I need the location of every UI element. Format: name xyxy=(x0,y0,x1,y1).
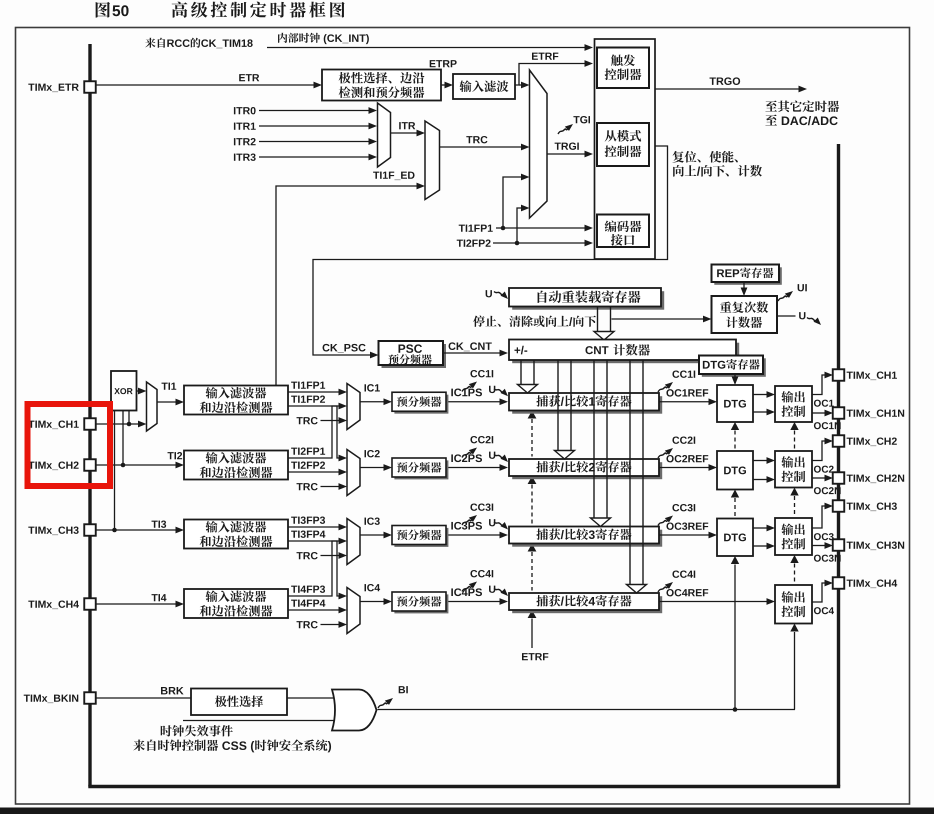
mux IC2 select xyxy=(347,450,360,496)
wire TI3 xyxy=(152,520,167,527)
pin TIMx_CH2N right xyxy=(833,472,845,484)
figure title text xyxy=(172,2,345,18)
box capture/compare register 2 xyxy=(512,462,662,479)
label clock failure event xyxy=(161,725,233,736)
wire TIMx_CH1 to mux xyxy=(96,423,139,425)
event CC2I left xyxy=(470,436,493,443)
wire ITR xyxy=(399,122,415,129)
mux ITR select xyxy=(378,103,391,167)
box channel prescaler 4 xyxy=(394,594,448,613)
pin TIMx_CH1N right xyxy=(833,407,845,419)
wire IC2 xyxy=(360,467,384,469)
wire update to repetition counter xyxy=(612,318,704,320)
wire OC2N to pin xyxy=(812,477,825,479)
wire CH1 to XOR xyxy=(128,411,130,425)
wire clock failure input xyxy=(183,720,336,722)
label CSS source xyxy=(133,739,331,752)
wire TI3FP4 xyxy=(291,530,325,537)
pin TIMx_CH3 right xyxy=(833,500,845,512)
pin TIMx_CH1 xyxy=(84,418,96,430)
box capture/compare register 4 xyxy=(512,596,662,613)
left pin rail xyxy=(88,44,91,787)
wire DTG2 to output control xyxy=(753,460,767,462)
box output control 4 xyxy=(775,585,812,624)
label TRGO destination xyxy=(765,100,839,112)
event U repetition out xyxy=(777,315,796,317)
box encoder interface xyxy=(597,215,649,248)
wire TRGO xyxy=(655,88,799,90)
wire TI2 xyxy=(168,452,183,459)
wire dashed DTG1 update xyxy=(731,422,739,430)
pin TIMx_BKIN xyxy=(84,692,96,704)
event TGI xyxy=(558,124,573,134)
event U CC2 xyxy=(489,452,495,459)
wire compare event dashed CC1 xyxy=(528,411,537,419)
label CK_TIM18 source xyxy=(145,38,252,48)
box channel prescaler 3 xyxy=(394,528,448,547)
wire OC4 to pin xyxy=(812,583,825,602)
wire TRC channel 2 xyxy=(297,483,318,490)
box output control 3 xyxy=(775,518,812,555)
wire TRC channel 4 xyxy=(297,621,318,628)
mux IC1 select xyxy=(347,384,360,430)
wire dashed OC1 update xyxy=(790,422,798,430)
gate OR break xyxy=(332,690,377,731)
pin TIMx_CH3N right xyxy=(833,539,845,551)
box DTG register xyxy=(702,358,766,377)
wire TRC channel 3 xyxy=(297,552,318,559)
box input filter edge detector TI4 xyxy=(184,589,288,618)
wire ETRP xyxy=(441,84,445,86)
event U auto-reload xyxy=(486,290,492,297)
event UI xyxy=(778,291,793,301)
pin TIMx_CH1 right xyxy=(833,369,845,381)
wire dashed DTG2 update xyxy=(731,490,739,498)
event CC4I right xyxy=(672,570,695,577)
pin TIMx_CH4 right xyxy=(833,577,845,589)
wire IC1 xyxy=(360,401,384,403)
box PSC prescaler xyxy=(382,344,447,368)
box REP register xyxy=(714,267,782,285)
wire TI3FP3 xyxy=(291,516,325,523)
wire TI4FP3 xyxy=(291,585,325,592)
wire OC4 enable from break line xyxy=(790,624,798,632)
wire IC2PS xyxy=(446,467,500,469)
wire OC4REF xyxy=(659,601,767,603)
wire CNT to CC3 double arrow xyxy=(593,360,595,518)
wire CNT to CC1 double arrow xyxy=(520,360,522,385)
box input filter edge detector TI2 xyxy=(184,451,288,480)
wire TI1FP1 xyxy=(291,382,325,389)
mux IC4 select xyxy=(347,588,360,634)
wire TI1F_ED xyxy=(373,172,414,181)
wire OC1REF xyxy=(659,401,709,403)
wire REP to repetition counter xyxy=(743,282,745,288)
box ETR polarity/edge/prescaler xyxy=(322,70,441,101)
wire IC4PS xyxy=(446,601,500,603)
box input filter edge detector TI1 xyxy=(184,386,288,415)
box capture/compare register 1 xyxy=(512,396,662,414)
box XOR xyxy=(111,371,137,411)
wire IC4 xyxy=(360,601,384,603)
wire break line xyxy=(378,709,796,711)
wire TI1FP1 top xyxy=(459,225,493,232)
mux TRGI select xyxy=(530,70,548,218)
mux IC3 select xyxy=(347,519,360,565)
event CC3I left xyxy=(470,503,493,510)
wire OC1 to pin xyxy=(812,375,825,395)
wire IC3PS xyxy=(446,534,500,536)
wire OC2REF xyxy=(659,467,709,469)
pin TIMx_CH2 right xyxy=(833,435,845,447)
event BI xyxy=(378,698,393,708)
wire TI2FP2 xyxy=(291,461,325,468)
pin TIMx_CH4 xyxy=(84,598,96,610)
event CC4I left xyxy=(470,570,493,577)
wire ETRF xyxy=(515,64,585,86)
wire TI2FP1 xyxy=(291,447,325,454)
wire OC3REF xyxy=(659,534,709,536)
box output control 1 xyxy=(775,386,812,422)
box channel prescaler 2 xyxy=(394,460,448,479)
wire TRGI xyxy=(555,142,579,149)
wire CH2 to XOR xyxy=(122,411,124,466)
wire TI1FP2 xyxy=(291,395,325,402)
wire ITR2 xyxy=(234,138,256,145)
wire TI4 xyxy=(152,594,167,601)
page bottom bar xyxy=(0,808,934,814)
pin TIMx_ETR xyxy=(84,81,96,93)
wire DTG3 to output control xyxy=(753,527,767,529)
box DTG 2 xyxy=(717,451,753,490)
label stop clear updown xyxy=(473,316,596,327)
wire DTG3 from break line xyxy=(731,556,739,564)
wire DTG register to DTG xyxy=(734,374,736,377)
annotation highlight TIMx_CH1 TIMx_CH2 xyxy=(28,404,111,486)
wire TI1 xyxy=(162,383,177,390)
wire ARR to CNT double arrow xyxy=(597,307,599,332)
event CC1I left xyxy=(470,370,493,377)
box ETR input filter xyxy=(453,74,515,99)
wire TRC to TRGI mux xyxy=(466,136,487,143)
wire BRK xyxy=(161,687,184,694)
wire OC3N to pin xyxy=(812,545,825,547)
event U CC3 xyxy=(489,519,495,526)
event U CC4 xyxy=(489,586,495,593)
box controller container xyxy=(595,39,656,259)
wire TI2FP2 top xyxy=(457,239,491,246)
mux TRC select xyxy=(425,121,440,200)
wire TRC channel 1 xyxy=(297,417,318,424)
event U CC1 xyxy=(489,386,495,393)
wire compare event dashed CC2 xyxy=(528,476,537,484)
box input filter edge detector TI3 xyxy=(184,520,288,549)
event CC2I right xyxy=(672,436,695,443)
bottom rail wire xyxy=(88,785,840,788)
figure title 图50 xyxy=(96,2,110,18)
wire CNT to CC4 double arrow xyxy=(629,360,631,585)
wire IC1PS xyxy=(446,401,500,403)
wire ETR xyxy=(96,84,314,86)
box CNT counter xyxy=(512,343,739,364)
event CC1I right xyxy=(672,370,695,377)
wire OC2 to pin xyxy=(812,441,825,461)
box DTG 1 xyxy=(717,385,753,422)
box output control 2 xyxy=(775,451,812,488)
box BRK polarity select xyxy=(191,689,287,716)
pin TIMx_CH3 xyxy=(84,524,96,536)
mux TI1 select xyxy=(147,382,158,431)
box trigger controller xyxy=(597,48,649,89)
wire CNT to CC2 double arrow xyxy=(557,360,559,451)
wire ITR0 xyxy=(234,107,256,114)
box channel prescaler 1 xyxy=(394,395,448,414)
box auto-reload register xyxy=(512,291,664,310)
event CC3I right xyxy=(672,504,695,511)
wire polarity to OR gate xyxy=(287,697,336,699)
wire IC3 xyxy=(360,534,384,536)
wire dashed OC3 update xyxy=(790,555,798,563)
box repetition counter xyxy=(712,296,778,333)
pin TIMx_CH2 xyxy=(84,459,96,471)
wire OC3 to pin xyxy=(812,506,825,528)
wire clock control path CK_PSC xyxy=(313,146,668,355)
box capture/compare register 3 xyxy=(512,530,662,547)
wire OC1N to pin xyxy=(812,412,825,414)
wire TI4FP4 xyxy=(291,600,325,607)
label ETRP xyxy=(430,60,457,67)
wire DTG1 to output control xyxy=(753,394,767,396)
right pin rail xyxy=(837,144,840,787)
wire compare event dashed CC3 xyxy=(528,544,537,552)
wire ITR1 xyxy=(234,123,256,130)
wire CH3 to XOR xyxy=(114,411,116,531)
wire dashed OC2 update xyxy=(790,488,798,496)
wire ETRF to CC4 xyxy=(528,610,537,618)
wire CK_INT internal clock xyxy=(267,47,585,49)
wire ITR3 xyxy=(234,153,256,160)
box DTG 3 xyxy=(717,519,753,557)
box slave mode controller xyxy=(597,123,649,166)
wire XOR output xyxy=(137,390,139,392)
wire CK_CNT xyxy=(443,352,500,354)
label slave mode actions xyxy=(672,151,737,163)
